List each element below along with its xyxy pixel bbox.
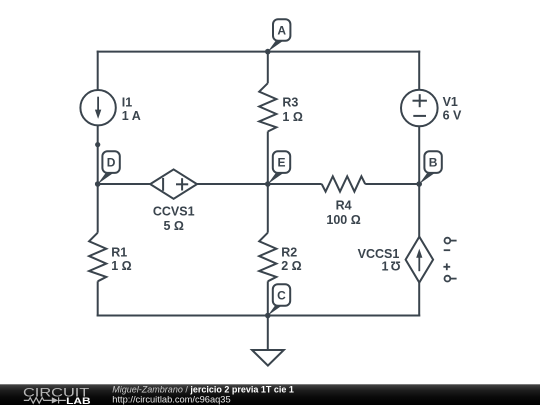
svg-text:Ω: Ω bbox=[391, 258, 401, 272]
label R4 value bbox=[326, 198, 360, 226]
resistor R4 bbox=[322, 176, 366, 191]
wire node E to R2 bbox=[267, 184, 269, 233]
logo resistor+diode glyph bbox=[24, 397, 66, 403]
svg-text:R4: R4 bbox=[336, 198, 352, 212]
dependent source VCCS1 (diamond) bbox=[406, 237, 434, 283]
wire node C to ground bbox=[267, 316, 269, 351]
VCCS1 control terminal bottom bbox=[443, 263, 456, 281]
svg-text:E: E bbox=[277, 156, 285, 170]
svg-text:R2: R2 bbox=[281, 245, 297, 259]
wire R3 bottom to node E bbox=[267, 132, 269, 185]
svg-text:R3: R3 bbox=[282, 96, 298, 110]
wire I1 bottom to node D bbox=[97, 125, 99, 184]
wire R4 to node B bbox=[365, 183, 419, 185]
wire right vertical top to V1 bbox=[418, 51, 420, 90]
svg-text:CCVS1: CCVS1 bbox=[153, 204, 195, 218]
svg-text:I1: I1 bbox=[122, 96, 132, 110]
footer bar bbox=[0, 384, 540, 405]
resistor R2 bbox=[259, 233, 276, 282]
node B bbox=[416, 151, 441, 187]
wire node E to R4 bbox=[268, 183, 322, 185]
wire R1 bottom to bottom rail bbox=[97, 281, 99, 316]
svg-text:C: C bbox=[277, 288, 286, 302]
current source I1 bbox=[80, 90, 115, 125]
svg-text:A: A bbox=[277, 23, 286, 37]
resistor R3 bbox=[259, 83, 276, 131]
svg-text:1 Ω: 1 Ω bbox=[111, 259, 131, 273]
wire CCVS1 right to node E bbox=[197, 183, 268, 185]
svg-text:6 V: 6 V bbox=[443, 108, 462, 122]
svg-text:R1: R1 bbox=[111, 245, 127, 259]
svg-text:1 Ω: 1 Ω bbox=[282, 110, 302, 124]
junction dot at I1 bottom bbox=[95, 142, 100, 147]
svg-text:2 Ω: 2 Ω bbox=[281, 259, 301, 273]
svg-text:LAB: LAB bbox=[66, 396, 91, 405]
svg-text:5 Ω: 5 Ω bbox=[163, 219, 183, 233]
label R3 value bbox=[282, 96, 302, 124]
svg-text:1 A: 1 A bbox=[122, 109, 141, 123]
svg-text:V1: V1 bbox=[443, 95, 458, 109]
resistor R1 bbox=[89, 233, 106, 282]
label R2 value bbox=[281, 245, 301, 273]
svg-text:Miguel-Zambrano / jercicio 2 p: Miguel-Zambrano / jercicio 2 previa 1T c… bbox=[112, 385, 294, 395]
ground bbox=[252, 350, 284, 366]
node E bbox=[265, 151, 290, 187]
wire node D to CCVS1 left bbox=[98, 183, 151, 185]
label CCVS1 value bbox=[153, 204, 195, 233]
node C bbox=[265, 284, 290, 318]
svg-text:D: D bbox=[107, 156, 116, 170]
wire bottom rail bbox=[97, 315, 421, 317]
svg-text:1: 1 bbox=[382, 259, 389, 273]
svg-text:http://circuitlab.com/c96aq35: http://circuitlab.com/c96aq35 bbox=[112, 394, 230, 404]
wire node B to VCCS1 bbox=[418, 184, 420, 237]
svg-text:100 Ω: 100 Ω bbox=[326, 213, 360, 227]
wire R2 bottom to node C bbox=[267, 281, 269, 315]
wire V1 bottom to node B bbox=[418, 126, 420, 184]
wire VCCS1 bottom to bottom rail bbox=[418, 283, 420, 317]
label VCCS1 value bbox=[358, 247, 401, 273]
label V1 value bbox=[443, 95, 462, 122]
svg-text:B: B bbox=[429, 156, 438, 170]
node D bbox=[95, 151, 120, 187]
VCCS1 control terminal top bbox=[444, 238, 457, 250]
label I1 value bbox=[122, 96, 141, 123]
label R1 value bbox=[111, 245, 131, 273]
wire top horizontal A row bbox=[97, 51, 421, 53]
wire middle vertical A to R3 bbox=[267, 52, 269, 84]
node A bbox=[265, 19, 290, 54]
voltage source V1 bbox=[401, 90, 438, 127]
dependent source CCVS1 (diamond) bbox=[150, 169, 197, 198]
wire node D to R1 bbox=[97, 184, 99, 233]
wire left vertical top (top wire to I1) bbox=[97, 51, 99, 91]
